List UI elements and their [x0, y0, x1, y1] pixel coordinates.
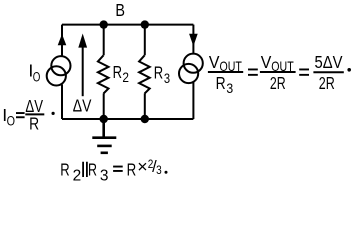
equals 1	[248, 69, 258, 76]
formula Vout/R3	[208, 52, 243, 97]
label R3	[154, 62, 170, 87]
wire R3 branch top	[144, 25, 146, 56]
wire R2 branch top	[103, 25, 105, 56]
wire top bus	[62, 24, 193, 26]
junction dot node B left	[100, 20, 108, 28]
arrowhead right branch (down)	[189, 34, 198, 47]
svg-text:×: ×	[137, 157, 147, 177]
arrowhead delta-V (up)	[78, 34, 87, 48]
resistor R2	[98, 55, 109, 93]
svg-text:R: R	[216, 73, 226, 93]
svg-text:R: R	[29, 113, 39, 133]
svg-text:R: R	[154, 62, 164, 82]
svg-text:V: V	[261, 52, 272, 72]
label I_O	[28, 60, 40, 85]
wire right branch lower	[192, 83, 194, 120]
formula I_O = dV/R	[2, 96, 54, 134]
wire right branch upper	[192, 25, 194, 54]
svg-text:2: 2	[122, 70, 129, 86]
wire R2 branch bottom	[103, 93, 105, 119]
svg-text:R: R	[60, 159, 70, 179]
resistor R3	[139, 55, 150, 93]
current source I_O (left, two circles)	[51, 56, 70, 75]
svg-text:3: 3	[164, 71, 170, 87]
svg-text:B: B	[115, 0, 125, 20]
svg-text:ΔV: ΔV	[73, 96, 92, 116]
junction dot node B right	[141, 20, 149, 28]
formula 5dV/2R	[313, 52, 351, 93]
ground	[92, 119, 116, 153]
junction dot bottom right	[141, 115, 149, 123]
svg-text:V: V	[209, 52, 220, 72]
wire left branch lower	[61, 85, 63, 120]
svg-text:3: 3	[100, 167, 109, 183]
svg-text:R: R	[127, 159, 137, 179]
formula Vout/2R	[260, 52, 296, 93]
equals 2	[299, 69, 309, 76]
formula R2||R3 = Rx2/3	[60, 157, 167, 185]
arrowhead left branch (up)	[58, 34, 67, 45]
wire left branch upper	[61, 25, 63, 56]
svg-text:2R: 2R	[270, 73, 286, 93]
wire R3 branch bottom	[144, 93, 146, 119]
label R2	[113, 62, 129, 86]
svg-text:3: 3	[226, 81, 233, 97]
svg-text:5ΔV: 5ΔV	[315, 52, 343, 72]
svg-text:O: O	[33, 69, 41, 85]
svg-text:R: R	[88, 159, 97, 179]
svg-text:O: O	[7, 114, 15, 130]
wire bottom bus	[62, 118, 193, 120]
svg-text:2R: 2R	[319, 73, 335, 93]
wire delta-V arrow stem	[82, 46, 84, 96]
current source right (two circles)	[184, 54, 203, 73]
svg-text:R: R	[113, 62, 123, 82]
svg-text:2: 2	[73, 167, 82, 183]
junction dot bottom left	[100, 115, 108, 123]
svg-text:3: 3	[156, 164, 162, 177]
